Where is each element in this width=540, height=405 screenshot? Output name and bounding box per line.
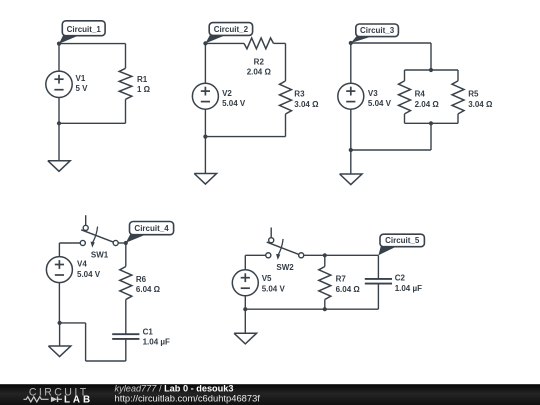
resistor R5 [452, 81, 464, 114]
svg-text:R3: R3 [294, 90, 305, 99]
wire left upper circuit 3 [350, 43, 352, 83]
wire riser to node circuit 4 [60, 322, 86, 324]
wire to ground circuit 2 [204, 137, 206, 174]
svg-text:R5: R5 [468, 90, 479, 99]
node parallel bottom junction [429, 121, 433, 125]
switch SW1 [85, 215, 87, 225]
wire to ground circuit 3 [350, 150, 352, 174]
wire R6 to C1 [125, 300, 127, 335]
voltage source V5 [232, 270, 258, 296]
voltage source V4 [46, 257, 72, 283]
svg-text:1.04 µF: 1.04 µF [143, 338, 170, 347]
svg-text:http://circuitlab.com/c6duhtp4: http://circuitlab.com/c6duhtp46873f [115, 393, 261, 404]
svg-text:6.04 Ω: 6.04 Ω [336, 285, 361, 294]
wire left lower circuit 3 [350, 109, 352, 150]
ground circuit 4 [48, 346, 70, 357]
node parallel top junction [429, 68, 433, 72]
svg-text:V4: V4 [77, 260, 87, 269]
capacitor C1 [112, 333, 139, 335]
voltage source V3 [338, 83, 364, 109]
wire riser circuit 4 [85, 323, 87, 361]
wire down from parallel pair [430, 123, 432, 150]
label Circuit_1 callout [59, 35, 79, 44]
label Circuit_3 callout [351, 36, 373, 43]
node bottom-left circuit 3 [349, 148, 353, 152]
label Circuit_2 callout [205, 35, 226, 44]
wire resistor R1 top lead [125, 44, 127, 69]
svg-text:V5: V5 [262, 274, 272, 283]
svg-text:5.04 V: 5.04 V [77, 270, 101, 279]
svg-text:V2: V2 [222, 89, 232, 98]
wire resistor R1 bottom lead [125, 99, 127, 123]
svg-text:V3: V3 [368, 89, 378, 98]
svg-text:5.04 V: 5.04 V [222, 99, 246, 108]
ground circuit 3 [340, 174, 362, 185]
wire resistor R5 top lead [457, 70, 459, 81]
node R7 top [323, 253, 327, 257]
node top-left circuit 3 [349, 41, 353, 45]
wire resistor R5 bottom lead [457, 114, 459, 123]
wire right lower circuit 2 [285, 114, 287, 137]
wire resistor R4 bottom lead [404, 114, 406, 123]
resistor R4 [399, 81, 411, 114]
voltage source V1 [46, 71, 72, 97]
ground circuit 1 [48, 161, 70, 172]
wire left lower circuit 2 [204, 109, 206, 136]
svg-text:2.04 Ω: 2.04 Ω [415, 100, 440, 109]
CircuitLab logo diode [51, 397, 57, 403]
wire left upper circuit 1 [58, 44, 60, 72]
svg-text:3.04 Ω: 3.04 Ω [294, 100, 319, 109]
svg-text:R2: R2 [254, 58, 265, 67]
wire C2 bottom lead [377, 284, 379, 310]
svg-text:5.04 V: 5.04 V [368, 99, 392, 108]
label Circuit_5 callout [378, 246, 397, 255]
svg-text:Circuit_4: Circuit_4 [134, 224, 169, 233]
svg-text:V1: V1 [76, 74, 86, 83]
wire left upper circuit 2 [204, 43, 206, 83]
resistor R7 [319, 267, 331, 300]
wire top rail circuit 3 [351, 42, 431, 44]
ground circuit 2 [194, 174, 216, 185]
ground circuit 5 [234, 333, 256, 344]
svg-text:Circuit_3: Circuit_3 [360, 26, 395, 35]
wire to ground circuit 1 [58, 123, 60, 160]
label Circuit_4 callout [126, 234, 147, 243]
wire V5 bottom [244, 296, 246, 309]
svg-text:3.04 Ω: 3.04 Ω [468, 100, 493, 109]
wire switch to node circuit 4 [118, 242, 126, 244]
svg-text:2.04 Ω: 2.04 Ω [247, 68, 272, 77]
node bottom-left circuit 5 [243, 307, 247, 311]
svg-text:C1: C1 [143, 327, 154, 336]
capacitor C2 [365, 278, 392, 280]
wire bottom rail circuit 1 [59, 122, 126, 124]
wire to ground circuit 5 [244, 309, 246, 333]
svg-text:LAB: LAB [64, 394, 93, 405]
wire C2 top lead [377, 255, 379, 279]
wire switch to R7 node [304, 254, 325, 256]
wire bottom rail circuit 2 [205, 136, 285, 138]
wire bottom run circuit 4 [86, 360, 126, 362]
node top-left circuit 2 [203, 41, 207, 45]
svg-text:R6: R6 [136, 275, 147, 284]
node bottom-left circuit 1 [57, 121, 61, 125]
svg-text:1.04 µF: 1.04 µF [395, 284, 422, 293]
wire bottom rail circuit 5 [245, 308, 378, 310]
wire V4 top [58, 243, 60, 257]
svg-text:Circuit_1: Circuit_1 [67, 25, 102, 34]
wire R7 top lead [324, 255, 326, 266]
wire node down to R6 [125, 243, 127, 267]
wire parallel bottom rail [405, 122, 459, 124]
svg-text:1 Ω: 1 Ω [137, 85, 151, 94]
wire V5 to switch [245, 254, 265, 256]
svg-text:6.04 Ω: 6.04 Ω [136, 285, 161, 294]
svg-text:C2: C2 [395, 274, 406, 283]
wire parallel top rail [405, 69, 459, 71]
node switch circuit 4 [124, 241, 128, 245]
wire right upper circuit 2 [285, 43, 287, 81]
wire C1 bottom [125, 339, 127, 361]
wire resistor R4 top lead [404, 70, 406, 81]
wire top-right circuit 2 [274, 42, 286, 44]
resistor R3 [280, 81, 292, 114]
wire V4 to switch [59, 242, 80, 244]
wire R7 bottom lead [324, 300, 326, 310]
wire down to parallel pair [430, 43, 432, 70]
svg-text:SW2: SW2 [276, 263, 294, 272]
wire bottom rail circuit 3 [351, 149, 431, 151]
svg-text:SW1: SW1 [91, 251, 109, 260]
resistor R1 [119, 68, 132, 99]
node R7 bottom [323, 307, 327, 311]
svg-text:Circuit_5: Circuit_5 [385, 236, 420, 245]
node top-left circuit 1 [57, 42, 61, 46]
CircuitLab logo resistor zigzag [24, 397, 49, 402]
wire V4 bottom [58, 283, 60, 323]
svg-text:R4: R4 [415, 90, 426, 99]
node bottom-left circuit 2 [203, 135, 207, 139]
wire top-left circuit 2 [205, 42, 244, 44]
switch SW2 [270, 228, 272, 238]
resistor R6 [120, 267, 132, 300]
voltage source V2 [192, 83, 218, 109]
svg-text:5.04 V: 5.04 V [262, 284, 286, 293]
wire R7 node to C2 node [325, 254, 379, 256]
resistor R2 [244, 38, 274, 49]
node bottom-left circuit 4 [58, 321, 62, 325]
svg-text:R1: R1 [137, 75, 148, 84]
wire left lower circuit 1 [58, 98, 60, 124]
svg-text:Circuit_2: Circuit_2 [214, 25, 249, 34]
wire to ground circuit 4 [59, 323, 61, 346]
svg-text:5 V: 5 V [76, 84, 89, 93]
wire top rail circuit 1 [59, 43, 126, 45]
wire V5 top [244, 255, 246, 269]
svg-text:R7: R7 [336, 275, 347, 284]
